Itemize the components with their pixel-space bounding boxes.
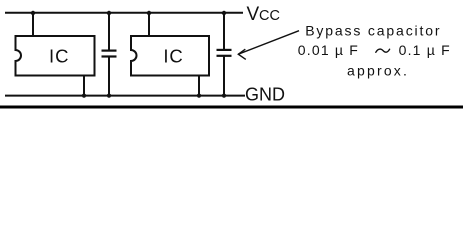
- wire IC1 VCC pin: [32, 13, 34, 36]
- node junction GND-C1: [107, 94, 111, 98]
- svg-text:CC: CC: [259, 8, 280, 24]
- node junction GND-IC1: [82, 94, 86, 98]
- svg-text:V: V: [247, 4, 260, 25]
- node junction VCC-IC1: [31, 11, 35, 15]
- wire IC1 GND pin: [83, 76, 85, 96]
- IC U1 body: [16, 36, 95, 76]
- capacitor C2 (bypass capacitor): [217, 13, 232, 96]
- wire VCC rail: [5, 12, 243, 14]
- svg-text:approx.: approx.: [347, 63, 409, 79]
- capacitor C1: [102, 13, 117, 96]
- bottom border line: [0, 106, 463, 109]
- svg-text:IC: IC: [49, 46, 69, 67]
- node junction GND-C2: [222, 94, 226, 98]
- svg-text:0.01 µ F: 0.01 µ F: [298, 42, 359, 58]
- svg-text:IC: IC: [163, 46, 183, 67]
- IC U2 body: [131, 36, 209, 76]
- node junction VCC-C1: [107, 11, 111, 15]
- node junction GND-IC2: [197, 94, 201, 98]
- svg-text:Bypass capacitor: Bypass capacitor: [305, 23, 441, 39]
- annotation tilde (range wave): [376, 49, 390, 52]
- node junction VCC-C2: [222, 11, 226, 15]
- svg-text:0.1 µ F: 0.1 µ F: [399, 42, 451, 58]
- annotation arrow to bypass capacitor: [238, 31, 299, 60]
- svg-text:GND: GND: [245, 85, 285, 105]
- net label VCC: [247, 4, 280, 25]
- wire IC2 VCC pin: [148, 13, 150, 36]
- node junction VCC-IC2: [147, 11, 151, 15]
- wire IC2 GND pin: [198, 76, 200, 96]
- wire GND rail: [5, 95, 245, 97]
